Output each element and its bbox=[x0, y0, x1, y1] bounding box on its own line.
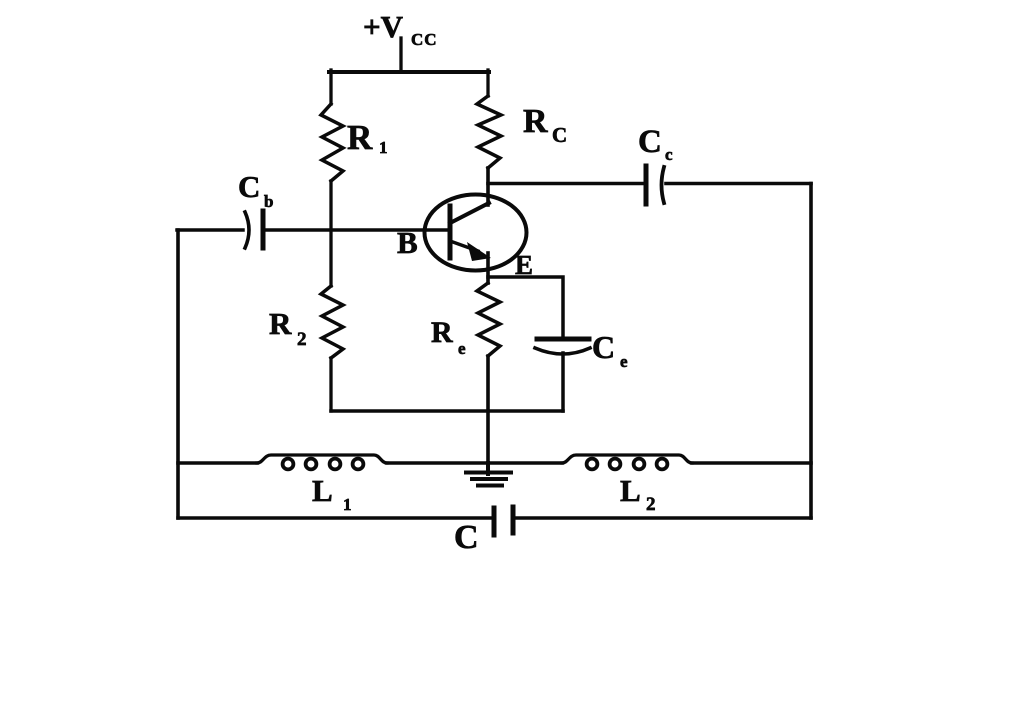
svg-text:L: L bbox=[620, 473, 641, 508]
transistor Q1 emitter arrowhead bbox=[467, 242, 491, 261]
svg-text:e: e bbox=[620, 352, 628, 371]
svg-text:e: e bbox=[458, 339, 466, 358]
wire collector node to Cc bbox=[488, 182, 644, 186]
label R1 bbox=[347, 118, 388, 157]
svg-text:c: c bbox=[665, 145, 673, 164]
label C bbox=[454, 519, 479, 556]
label R2 bbox=[269, 306, 307, 350]
wire emitter vertical bottom (to ground node) bbox=[486, 356, 490, 462]
wire bottom left (to C) bbox=[178, 516, 491, 520]
svg-text:b: b bbox=[264, 192, 273, 211]
label Cc bbox=[638, 124, 673, 164]
transistor Q1 collector diagonal bbox=[450, 203, 489, 223]
svg-text:R: R bbox=[431, 316, 453, 349]
svg-text:1: 1 bbox=[343, 495, 352, 514]
resistor R1 bbox=[321, 104, 343, 181]
svg-text:C: C bbox=[638, 124, 662, 160]
wire top rail bbox=[329, 70, 489, 74]
wire R1 to R2 (through base junction) bbox=[329, 181, 332, 286]
wire base right segment bbox=[265, 228, 448, 232]
resistor Re bbox=[477, 283, 500, 356]
wire right vertical bbox=[809, 184, 813, 519]
svg-text:R: R bbox=[523, 103, 548, 140]
wire tank top left (to L1) bbox=[178, 461, 257, 465]
svg-text:C: C bbox=[592, 329, 615, 365]
transistor Q1 body circle bbox=[425, 195, 527, 271]
svg-text:R: R bbox=[347, 118, 373, 157]
wire R1 top lead bbox=[329, 70, 332, 104]
svg-text:+V: +V bbox=[363, 9, 404, 44]
label Ce bbox=[592, 329, 628, 371]
wire Vcc stub bbox=[399, 38, 402, 72]
svg-text:B: B bbox=[397, 225, 418, 260]
resistor R2 bbox=[321, 286, 343, 358]
wire emitter vertical top bbox=[486, 253, 490, 283]
wire collector top lead bbox=[486, 70, 489, 96]
label L1 bbox=[312, 473, 352, 514]
label L2 bbox=[620, 473, 656, 515]
svg-text:CC: CC bbox=[411, 30, 438, 49]
capacitor Ce straight plate bbox=[537, 337, 589, 342]
ground bbox=[466, 463, 511, 486]
capacitor C right plate bbox=[511, 507, 516, 533]
capacitor Cc straight plate bbox=[644, 166, 649, 204]
capacitor Ce curved plate bbox=[535, 348, 590, 354]
wire tank top right (L2 to right vertical) bbox=[692, 461, 811, 465]
svg-text:L: L bbox=[312, 473, 333, 508]
wire tank top middle (ground node to L2) bbox=[488, 461, 562, 465]
wire tank top middle (L1 to ground node) bbox=[387, 461, 488, 465]
capacitor C left plate bbox=[492, 508, 497, 535]
wire collector into transistor bbox=[486, 168, 490, 205]
capacitor Cc curved plate bbox=[662, 167, 665, 203]
inductor L1 bbox=[257, 455, 387, 469]
svg-text:C: C bbox=[454, 519, 479, 556]
svg-text:2: 2 bbox=[297, 329, 307, 350]
capacitor Cb curved plate bbox=[245, 212, 249, 248]
wire Ce bottom lead bbox=[561, 353, 565, 411]
wire Cc to right vertical bbox=[666, 182, 811, 186]
capacitor Cb straight plate bbox=[261, 211, 266, 248]
svg-text:C: C bbox=[552, 123, 567, 147]
wire emitter node to Ce branch bbox=[488, 277, 563, 337]
svg-text:R: R bbox=[269, 306, 292, 341]
label Rc bbox=[523, 103, 567, 147]
wire R2 bottom lead bbox=[329, 358, 332, 411]
wire base left segment bbox=[177, 228, 243, 232]
wire left vertical bbox=[176, 230, 180, 518]
label Re bbox=[431, 316, 466, 358]
inductor L2 bbox=[562, 455, 692, 469]
label E bbox=[515, 250, 533, 280]
svg-text:1: 1 bbox=[379, 138, 388, 157]
svg-text:C: C bbox=[238, 169, 260, 204]
label B bbox=[397, 225, 418, 260]
transistor Q1 base bar bbox=[448, 206, 453, 258]
wire bottom right (C to right vertical) bbox=[516, 516, 811, 520]
svg-text:2: 2 bbox=[646, 494, 656, 515]
resistor Rc bbox=[477, 96, 501, 168]
label +Vcc bbox=[363, 9, 438, 49]
wire inner bottom (R2/Re/Ce common) bbox=[331, 409, 563, 413]
transistor Q1 emitter diagonal bbox=[450, 241, 478, 251]
label Cb bbox=[238, 169, 273, 211]
